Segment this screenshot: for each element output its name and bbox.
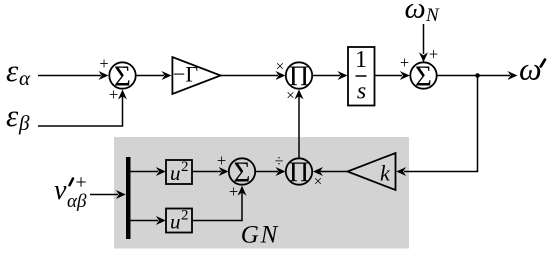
svg-text:β: β xyxy=(18,111,30,135)
divider P2 xyxy=(286,157,312,188)
svg-text:ω: ω xyxy=(405,0,426,25)
svg-text:+: + xyxy=(217,151,226,170)
summing junction S2 xyxy=(410,60,436,92)
multiplier P1 xyxy=(286,61,312,92)
svg-text:−Γ: −Γ xyxy=(173,62,198,87)
wire epsilon_beta to S1 bottom xyxy=(38,90,127,127)
svg-text:2: 2 xyxy=(181,208,189,224)
svg-text:×: × xyxy=(314,174,322,190)
svg-text:s: s xyxy=(357,79,366,105)
wire top u2 to summer S3 xyxy=(192,167,229,176)
svg-text:α: α xyxy=(19,66,31,90)
summing junction S1 xyxy=(109,60,135,92)
svg-text:v: v xyxy=(54,175,67,206)
node v'+_alphabeta label xyxy=(54,172,87,212)
svg-text:GN: GN xyxy=(241,221,279,248)
wire omega_N to S2 top xyxy=(419,24,428,62)
block u2 top xyxy=(166,159,192,185)
node epsilon_beta label xyxy=(6,98,30,135)
svg-text:ω: ω xyxy=(519,50,542,86)
svg-text:÷: ÷ xyxy=(275,153,284,170)
svg-text:ε: ε xyxy=(6,98,19,133)
wire S3 to divider P2 xyxy=(255,167,285,176)
wire S2 to output omega' xyxy=(437,71,518,80)
node epsilon_alpha label xyxy=(6,53,31,90)
wire P1 to integrator xyxy=(312,71,347,80)
svg-text:Π: Π xyxy=(289,157,309,188)
GN shaded region xyxy=(114,137,409,249)
wire v to bus bar xyxy=(90,190,126,199)
wire integrator to summer S2 xyxy=(375,71,410,80)
svg-text:+: + xyxy=(109,85,118,104)
svg-text:2: 2 xyxy=(181,159,189,175)
summing junction S3 xyxy=(229,156,255,188)
block u2 bottom xyxy=(166,208,192,234)
junction dot xyxy=(475,73,480,78)
integrator block 1/s xyxy=(348,47,375,106)
wire bottom u2 to S3 bottom xyxy=(192,186,247,221)
wire S1 to gain -Gamma xyxy=(136,71,172,80)
bus bar xyxy=(126,157,131,239)
svg-text:N: N xyxy=(425,5,440,26)
svg-text:αβ: αβ xyxy=(67,191,87,212)
wire k to divider P2 xyxy=(313,167,348,176)
svg-text:1: 1 xyxy=(355,47,367,73)
wire bar to bottom u2 xyxy=(131,216,166,225)
svg-text:ε: ε xyxy=(6,53,19,88)
svg-text:u: u xyxy=(170,161,181,185)
node omega_N label xyxy=(405,0,441,26)
wire P2 up to P1 bottom xyxy=(295,89,304,158)
wire feedback from junction down to k xyxy=(396,76,477,177)
svg-text:Σ: Σ xyxy=(415,60,432,92)
svg-text:k: k xyxy=(380,160,391,185)
svg-text:+: + xyxy=(229,182,238,201)
svg-text:×: × xyxy=(286,88,294,104)
svg-text:u: u xyxy=(170,210,181,234)
wire bar to top u2 xyxy=(131,167,166,176)
wire epsilon_alpha to summer S1 xyxy=(38,71,109,80)
svg-text:×: × xyxy=(276,59,284,75)
gain block -Gamma xyxy=(172,57,220,94)
gain block k xyxy=(348,153,396,190)
node omega' output label xyxy=(519,50,545,86)
svg-text:+: + xyxy=(400,53,409,72)
wire gain to multiplier P1 xyxy=(221,71,286,80)
svg-text:+: + xyxy=(99,54,108,73)
